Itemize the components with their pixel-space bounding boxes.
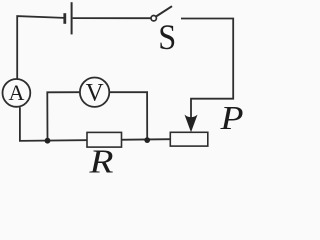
svg-text:R: R [88,144,113,176]
svg-text:P: P [219,100,243,137]
svg-text:A: A [8,80,24,105]
svg-text:S: S [158,17,176,57]
svg-text:V: V [86,79,104,106]
